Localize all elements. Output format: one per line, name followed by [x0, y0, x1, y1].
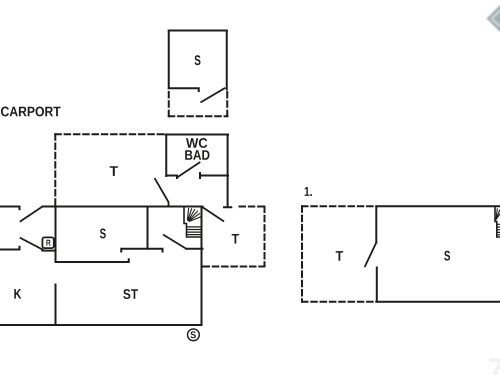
label floor1 T [336, 251, 343, 261]
entry door swing upper [21, 207, 43, 222]
label K [14, 289, 21, 299]
floor1 dashed left [301, 206, 303, 301]
wc/bad left wall [165, 135, 167, 177]
wc/bad bottom-right wall with tick [200, 173, 228, 178]
entry wall stub right of door [42, 250, 55, 252]
floor1 S bottom wall [376, 301, 500, 303]
main house right wall [201, 207, 203, 326]
entry door swing lower [21, 238, 43, 250]
R box [42, 237, 53, 248]
watermark arrow top-right [487, 5, 500, 32]
wc/bad bottom-left stub [166, 176, 177, 179]
label right terrace T [232, 234, 239, 244]
floor1 door swing [365, 243, 376, 267]
label WC [186, 138, 207, 148]
right terrace T dashed right [264, 207, 266, 267]
circled S stamp [188, 329, 200, 341]
terrace door swing at top wall [155, 179, 169, 207]
floor1 S top wall [376, 205, 500, 207]
terrace T dashed top [55, 133, 166, 135]
label floor1 S [444, 251, 450, 261]
floor1 stair partial: edges [495, 208, 500, 238]
floor1 dashed top [302, 205, 376, 207]
hall wall y249 with ticks [121, 249, 162, 252]
label ST [123, 289, 138, 299]
annex room S: top wall [169, 30, 227, 32]
stair: edges [184, 208, 201, 238]
annex room S: bottom wall with opening tick [169, 88, 199, 91]
entry wall lower-left with tick [0, 247, 20, 250]
right terrace T dashed top [240, 206, 265, 208]
label room S [100, 229, 106, 239]
hall wall y249 right piece [186, 248, 202, 250]
door swing to right terrace [203, 208, 223, 222]
annex room S: right wall [226, 31, 228, 90]
annex terrace dashed left [168, 92, 170, 116]
terrace T dashed left [54, 134, 56, 205]
floor1 divider upper [375, 206, 377, 242]
label annex S [195, 55, 201, 65]
floor1 stair rungs [497, 224, 500, 235]
label CARPORT [1, 107, 61, 117]
annex terrace dashed right [226, 92, 228, 116]
right terrace T dashed bottom [204, 266, 265, 268]
annex terrace dashed bottom [169, 115, 228, 117]
K and ST divider lower [55, 285, 57, 326]
label circled S [191, 331, 196, 338]
hall door swing [164, 235, 187, 249]
floor1 divider lower [376, 268, 378, 302]
wc/bad door swing [177, 163, 200, 178]
label R [46, 240, 50, 246]
label terrace T [110, 166, 118, 176]
floor1 stair fan [496, 209, 500, 220]
label 1. [305, 187, 312, 196]
wc/bad top wall [165, 134, 228, 136]
annex room S: left wall [168, 31, 170, 89]
watermark 7 bottom-right [489, 358, 500, 375]
main house bottom wall [0, 324, 202, 326]
label BAD [185, 150, 209, 160]
room S right wall [147, 207, 149, 249]
floor1 dashed bottom [302, 301, 376, 303]
stair rungs [187, 227, 201, 235]
room S left wall / K divider upper [55, 207, 57, 263]
annex door swing [201, 88, 224, 102]
main house top wall left piece with tick [0, 207, 20, 210]
main house top wall [43, 206, 203, 208]
room S bottom wall with tick [56, 259, 129, 262]
wc/bad right wall down to house [224, 135, 231, 208]
stair fan [187, 209, 200, 222]
